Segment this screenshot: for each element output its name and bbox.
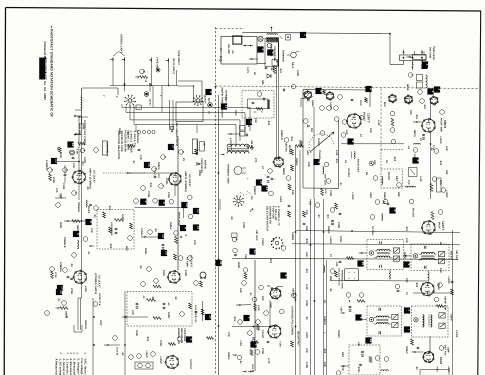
wire long horizontal IF bus 2 [292,244,460,245]
wire long x94 [93,293,101,375]
svg-text:470: 470 [55,188,58,193]
am loop antenna note [221,87,228,118]
svg-text:10MFD: 10MFD [323,316,326,325]
svg-text:COM: COM [60,193,63,199]
tube V2A 1/2 12AX7 [168,171,191,192]
black square B10 [57,285,65,291]
svg-text:1/2 12AX7: 1/2 12AX7 [188,174,191,187]
svg-text:DET AVC: DET AVC [444,345,447,356]
capacitor C4 [64,165,67,183]
box corner right [301,99,305,108]
circled refs row [232,320,279,331]
svg-text:10K: 10K [72,163,75,168]
svg-text:+85V: +85V [369,192,372,199]
svg-text:4. AUX 5. TV: 4. AUX 5. TV [133,131,136,147]
label stereo divider [83,120,86,145]
wire selector vertical x255 [254,260,256,371]
terminal dots line [243,45,253,47]
black square AC [300,32,308,38]
coil left of terminal box [324,266,335,274]
black square fm ant [422,61,430,67]
resistor with circ ref [242,268,248,286]
antenna terminal strip [400,50,427,70]
svg-text:270K: 270K [184,270,187,276]
circled X pilot [258,36,263,41]
svg-text:3. Controls at minim: 3. Controls at minim [66,359,69,375]
svg-text:100K: 100K [296,70,299,76]
svg-text:AFC: AFC [306,150,309,156]
svg-text:68K: 68K [329,276,332,281]
svg-text:TAPE INPUT: TAPE INPUT [177,50,180,65]
svg-text:17: 17 [172,145,176,149]
svg-text:Co. Inc. 1962: Co. Inc. 1962 [43,81,47,100]
resistor R1 [135,76,147,83]
black square T3 [403,261,411,267]
svg-text:47: 47 [419,138,422,141]
svg-text:5: 5 [359,317,363,319]
svg-text:+75V: +75V [239,340,242,347]
svg-text:8: 8 [89,221,93,223]
svg-text:+: + [348,271,350,275]
coil L8 fm [405,186,415,187]
black square right of chassis line [221,103,229,109]
far left circles [45,203,61,316]
svg-text:.001: .001 [405,226,408,232]
svg-text:line voltage of 117: line voltage of 117 [80,359,83,375]
resistor top row [78,142,85,145]
svg-text:22K: 22K [323,362,326,367]
tube V16 small [430,96,439,106]
svg-text:AM ANT: AM ANT [250,140,253,151]
svg-text:20: 20 [165,251,169,255]
svg-text:CONV: CONV [261,238,264,246]
svg-text:POSITION FROM: POSITION FROM [123,131,126,152]
bus crossbar ticks [74,115,81,135]
svg-text:.02: .02 [126,131,129,135]
svg-text:.02: .02 [154,228,157,232]
notes list [55,353,87,375]
osc text column [270,45,277,62]
svg-text:1: 1 [209,91,213,93]
shielded lead down to bus [78,88,118,135]
wire long vertical 1 [295,145,297,375]
svg-text:(RECORDING OUTP): (RECORDING OUTP) [175,122,178,146]
resistor R12 [72,220,80,223]
svg-text:ON-OFF: ON-OFF [227,44,230,55]
svg-text:.005: .005 [305,238,308,244]
svg-text:10K: 10K [445,146,448,151]
resistor under V4 [153,285,161,288]
svg-text:.05: .05 [142,295,145,299]
svg-text:455 KC: 455 KC [450,251,453,260]
svg-text:60: 60 [253,72,256,75]
svg-text:AUX SPKR 700: AUX SPKR 700 [194,305,197,323]
terminal strip label [282,50,285,63]
svg-text:L1: L1 [224,97,227,101]
svg-text:2. MAG 3. TUNER: 2. MAG 3. TUNER [130,131,133,153]
label 300 ohm twin lead [429,46,436,60]
svg-text:68: 68 [365,172,368,175]
svg-text:1MEG: 1MEG [405,346,408,354]
svg-text:22K: 22K [305,226,308,231]
svg-text:+125V: +125V [439,136,442,144]
svg-text:470K: 470K [52,177,55,183]
svg-text:2: 2 [369,88,373,90]
svg-text:270K: 270K [261,348,264,354]
label B output [297,331,300,346]
box bottom right [420,370,449,375]
value labels scatter [45,44,458,373]
black square D [267,49,275,55]
svg-text:6AV6: 6AV6 [439,357,443,365]
svg-text:100K: 100K [339,236,342,242]
svg-text:12AT7: 12AT7 [329,102,332,110]
fm front end extra labels [406,62,426,110]
socket box B [176,102,203,122]
svg-text:2: 2 [144,201,148,203]
svg-text:SHIELD: SHIELD [84,320,87,329]
svg-text:33K: 33K [254,118,257,123]
svg-text:1MEG: 1MEG [227,352,230,360]
svg-text:12: 12 [253,250,257,254]
svg-text:4: 4 [184,227,188,229]
small rect below ref [136,99,152,110]
svg-text:15: 15 [148,163,152,167]
circled ref C4 [63,168,68,173]
circled ref grid [62,301,67,306]
label cathode follower [291,292,297,335]
svg-text:4.7K: 4.7K [267,358,270,364]
top long wire [242,33,404,65]
tube V6 6BN8 det [273,138,291,168]
svg-text:+: + [354,271,356,275]
svg-text:21: 21 [265,187,269,191]
wire long left vertical [124,291,126,375]
svg-text:117V: 117V [246,67,249,73]
coil L7 fm [413,143,439,153]
svg-text:4. Resistance readin: 4. Resistance readin [69,359,72,375]
svg-text:6.8MEG: 6.8MEG [59,262,62,272]
resistor osc [249,58,276,73]
terminal view socket box [338,268,359,290]
coil above V19 [389,271,429,281]
black square 15 [144,162,152,168]
svg-text:TAPE MON: TAPE MON [183,328,186,341]
svg-text:.02: .02 [305,316,308,320]
tuner dashed separator [216,86,479,89]
svg-text:270K: 270K [305,362,308,368]
tube V3A amp B [73,270,101,294]
electrolytic caps cluster [265,173,277,182]
svg-text:.001: .001 [415,114,418,120]
svg-text:220K: 220K [198,170,201,176]
svg-text:330: 330 [409,110,412,115]
svg-text:1/2 12AX7: 1/2 12AX7 [93,170,96,183]
svg-text:1MEG: 1MEG [76,225,79,232]
svg-text:10K: 10K [369,128,372,133]
black square 14 [67,141,75,147]
diode D1 [267,74,271,78]
svg-text:6. Voltages measure: 6. Voltages measure [76,359,79,375]
svg-text:14: 14 [71,143,75,147]
svg-text:68K: 68K [397,192,400,197]
recording output jack [170,122,178,146]
svg-text:470K: 470K [257,305,260,311]
svg-text:1: 1 [304,34,308,36]
svg-text:47K: 47K [139,155,142,160]
wire top inputs to sockets [125,84,151,92]
svg-text:2: 2 [261,49,265,51]
black square fm2 [365,86,373,92]
svg-text:.0001: .0001 [357,366,360,373]
CHANNEL A box label [102,141,108,157]
wire vertical bus left pair [78,116,88,290]
svg-text:FM ANT: FM ANT [412,208,415,218]
svg-text:AMP: AMP [447,347,450,353]
function selector note [117,131,139,160]
black square tile19 [355,314,363,320]
circled refs input B [152,155,167,172]
svg-text:.001: .001 [335,158,338,164]
svg-text:22K: 22K [307,162,310,167]
CHANNEL B box label [192,139,198,155]
circled refs left of tube [50,267,68,273]
svg-text:470K: 470K [165,178,168,184]
black square 12 [249,248,257,254]
chassis dashed line vertical [215,27,217,375]
svg-text:AC: AC [231,50,234,54]
black square 11 [215,260,223,266]
tube V10 cathode follower [267,324,281,347]
svg-text:VOL: VOL [244,254,247,260]
resistor AVC [286,141,303,191]
svg-text:270K: 270K [70,288,73,294]
svg-text:330: 330 [405,278,408,283]
wire grid feed [57,161,79,163]
wire input bus [110,70,178,86]
component row top [130,195,201,231]
svg-text:100K: 100K [413,154,416,160]
svg-text:.005: .005 [393,156,396,162]
svg-text:1K: 1K [323,300,326,303]
svg-text:L5: L5 [344,160,347,164]
svg-text:AMP B (STEREO): AMP B (STEREO) [184,171,187,192]
svg-text:NARTB: NARTB [204,160,207,169]
IF transformer T4 dashed box [359,306,402,336]
svg-text:22K: 22K [439,268,442,273]
svg-text:(AM/FM TUNER CHASSIS): (AM/FM TUNER CHASSIS) [221,87,224,118]
svg-text:CONVERTER: CONVERTER [273,46,276,62]
svg-text:+105V: +105V [447,276,450,284]
svg-text:LOOP: LOOP [229,138,232,146]
svg-text:.003: .003 [109,243,112,249]
black square 3 [313,159,321,165]
svg-text:AM ANT: AM ANT [292,288,295,298]
svg-text:13: 13 [55,159,59,163]
svg-text:270: 270 [407,180,410,185]
tape amp jack J3 [149,57,159,86]
tuning eye symbol [287,51,299,58]
capacitor cluster [67,276,73,279]
wire bus y259 [232,258,458,261]
svg-text:1MEG: 1MEG [295,158,298,166]
antenna coil fm [321,162,331,195]
svg-text:RATIO DET: RATIO DET [357,159,360,173]
svg-text:STEREO CART: STEREO CART [120,34,123,53]
svg-text:.005: .005 [269,258,272,264]
svg-text:2: 2 [408,310,412,312]
svg-text:● PHOTOFACT STANDARD NOTATION: ● PHOTOFACT STANDARD NOTATION SCHEMATIC … [50,26,54,117]
svg-text:47K: 47K [131,310,134,315]
svg-text:1MEG: 1MEG [383,192,386,200]
black square stage [56,289,64,295]
svg-text:6. PHONO: 6. PHONO [136,131,139,144]
svg-text:270: 270 [254,158,257,163]
svg-text:(STEREO) AMP B: (STEREO) AMP B [94,273,97,294]
svg-text:.05: .05 [329,288,332,292]
circled ref bottom [336,371,341,375]
tube V18 12AT7 fm if [421,210,445,235]
svg-text:100K: 100K [135,330,138,336]
svg-text:1.5K: 1.5K [76,149,79,154]
wire socket box to amps [75,110,197,133]
svg-text:CATHODE FOLLOWER: CATHODE FOLLOWER [291,306,294,335]
black square B8 [85,219,93,225]
svg-text:CIRCUITRACE: CIRCUITRACE [44,59,48,82]
svg-text:47K: 47K [193,240,196,245]
circled ref near 17 [179,150,185,155]
svg-text:2. Socket connection: 2. Socket connection [62,359,65,375]
svg-text:12AT7: 12AT7 [367,113,371,123]
AC plug pins [220,49,222,62]
svg-text:AUX IN: AUX IN [116,347,119,356]
wire V4 plate long [177,136,179,271]
svg-text:FM DET: FM DET [363,112,366,122]
svg-text:12BE6: 12BE6 [291,232,294,241]
svg-text:47: 47 [329,254,332,257]
svg-text:3: 3 [317,161,321,163]
right margin small box [437,178,442,192]
test point TP2 [70,149,79,155]
svg-text:47K: 47K [90,228,93,233]
svg-text:6: 6 [190,339,194,341]
label am if [450,314,453,321]
svg-text:150V: 150V [305,332,308,338]
svg-text:TWIN LEAD: TWIN LEAD [432,46,435,60]
bottom components tile13 [259,285,283,291]
CIRCUITRACE badge [39,58,48,83]
cathode parts B [141,185,175,196]
svg-text:OUTPUT: OUTPUT [189,359,192,370]
tube V17 6BC5 fm rf amp [413,110,447,133]
svg-text:5. Measured with VT: 5. Measured with VT [73,359,76,375]
wire left column down [78,290,82,298]
svg-text:DET: DET [341,352,344,358]
shield line pair [277,42,279,160]
resistor R30 1MEG [56,307,69,319]
caps under V17 [422,134,425,139]
op point arrow [82,162,84,166]
svg-text:A Measured with: A Measured with [55,359,58,375]
diode arrow [250,208,254,212]
svg-text:12AX7: 12AX7 [149,99,152,107]
svg-text:1/2 12AX7: 1/2 12AX7 [98,275,101,288]
trimmer box fm [409,168,418,177]
circled ref R5 [48,168,54,173]
svg-text:.02: .02 [174,296,177,300]
sw labels left [309,201,335,225]
capacitor C6 .001 [154,170,160,178]
circled refs tuner row [320,95,343,111]
svg-text:+140V: +140V [329,236,332,244]
osc box outline [265,38,278,66]
svg-text:AF AMP: AF AMP [186,257,189,267]
svg-text:TM: TM [250,196,253,200]
black square 18 [256,179,264,185]
svg-text:12AX7: 12AX7 [204,96,207,104]
wire fm vertical [430,104,432,199]
svg-text:.01: .01 [249,292,252,296]
svg-text:1MEG: 1MEG [327,226,330,234]
svg-text:7: 7 [247,317,251,319]
black square ant [205,89,213,103]
resistor R15 [51,272,57,279]
tube V13 fm tuner right [388,94,424,103]
svg-text:.005: .005 [439,160,442,166]
svg-text:160: 160 [203,143,206,148]
svg-text:500K: 500K [237,262,240,268]
am oscillator dashed box [242,91,274,119]
wire long vertical 2 [299,150,301,375]
svg-text:+55V: +55V [436,366,439,372]
svg-text:SHOWN IN FM: SHOWN IN FM [268,206,271,224]
svg-text:1200: 1200 [84,286,87,292]
IF transformer T5 vertical coils [412,306,449,337]
fm antenna choke [407,51,427,60]
input bus drop wires [153,86,162,113]
svg-text:TREBLE: TREBLE [63,237,66,248]
svg-text:12AT7: 12AT7 [441,221,445,231]
harness verticals to selector [170,100,174,130]
svg-text:47: 47 [359,134,362,137]
svg-text:6BN8: 6BN8 [282,168,285,175]
svg-text:.005: .005 [415,282,418,288]
svg-text:47K: 47K [324,189,327,194]
svg-text:47K: 47K [341,366,344,371]
label 1MEG [76,225,79,232]
white box under osc [272,60,278,66]
svg-text:ANT COIL: ANT COIL [324,174,327,186]
bias box under V5 [135,362,153,369]
loudness dashed box [97,210,134,250]
svg-text:9: 9 [254,344,258,346]
svg-text:10K: 10K [305,252,308,257]
tube socket top view V7 [233,196,244,207]
ratio det components [370,199,397,220]
svg-text:R: R [142,71,145,73]
IF transformer T2 dashed box [359,240,404,270]
svg-text:2200: 2200 [162,270,165,276]
svg-text:1200: 1200 [167,192,170,198]
norm label block [169,328,194,345]
svg-text:500K: 500K [59,222,62,228]
coil treble [86,200,87,207]
svg-text:OSC: OSC [359,100,362,106]
fm rf coil cluster [417,75,428,95]
tube V11 fm tuner [304,90,312,99]
svg-text:1.5K: 1.5K [377,120,380,126]
oscillator coil T1 [267,27,283,42]
